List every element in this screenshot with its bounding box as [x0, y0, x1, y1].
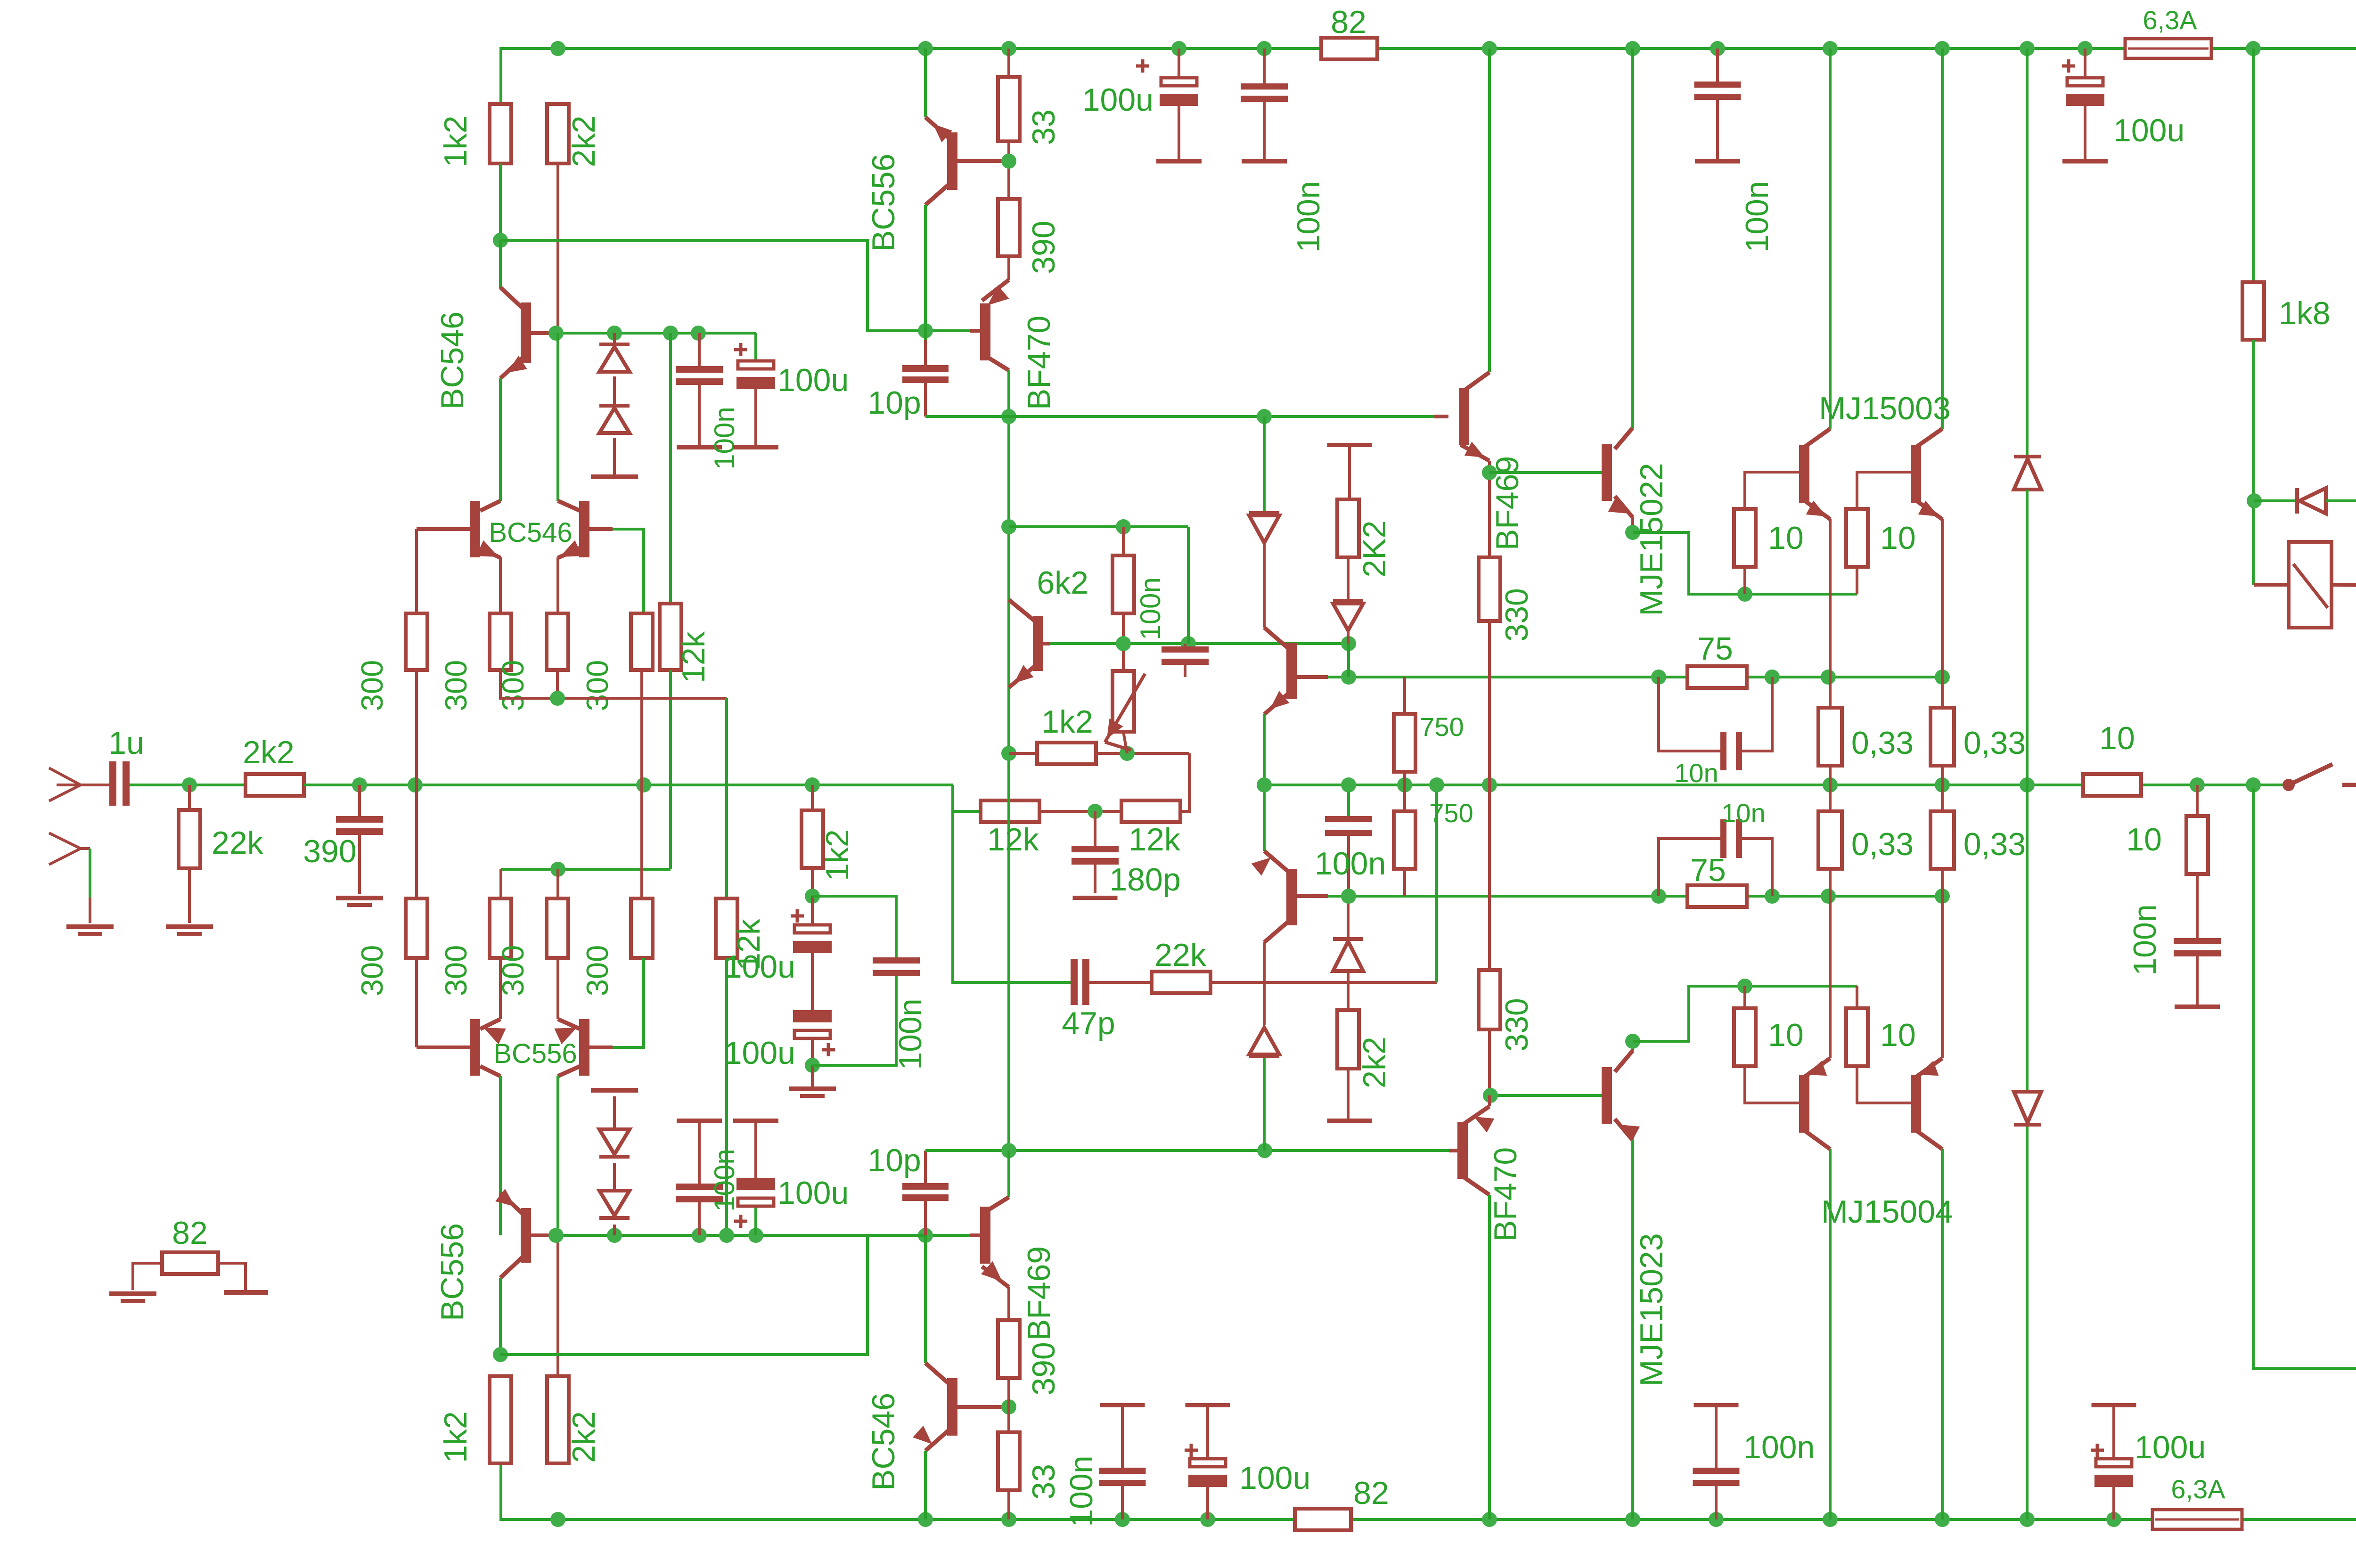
svg-text:100n: 100n [709, 407, 740, 469]
svg-text:10n: 10n [1674, 758, 1718, 788]
svg-text:6,3A: 6,3A [2143, 5, 2197, 35]
svg-text:75: 75 [1697, 631, 1733, 667]
svg-text:2k2: 2k2 [1357, 1037, 1392, 1088]
svg-text:BC546: BC546 [489, 517, 572, 548]
svg-text:22k: 22k [1154, 937, 1207, 973]
svg-text:47p: 47p [1062, 1005, 1115, 1041]
svg-text:100n: 100n [2127, 904, 2163, 975]
svg-text:MJE15023: MJE15023 [1634, 1233, 1669, 1386]
svg-text:2k2: 2k2 [243, 735, 294, 770]
svg-text:10p: 10p [867, 385, 921, 421]
svg-text:100n: 100n [709, 1149, 740, 1211]
svg-text:BF470: BF470 [1021, 316, 1057, 410]
svg-text:2k2: 2k2 [566, 1411, 602, 1463]
svg-text:100n: 100n [892, 998, 928, 1070]
svg-text:12k: 12k [987, 822, 1039, 857]
svg-text:12k: 12k [676, 631, 712, 683]
svg-text:10p: 10p [867, 1143, 921, 1178]
svg-text:10n: 10n [1721, 798, 1765, 828]
svg-text:100u: 100u [724, 949, 795, 985]
svg-text:10: 10 [1880, 1017, 1916, 1053]
svg-text:1k2: 1k2 [819, 829, 855, 881]
svg-text:300: 300 [355, 945, 389, 996]
svg-text:BC546: BC546 [434, 311, 470, 409]
svg-text:100u: 100u [2113, 113, 2184, 148]
svg-text:0,33: 0,33 [1851, 826, 1914, 862]
svg-text:10: 10 [1768, 1017, 1804, 1053]
svg-text:0,33: 0,33 [1963, 826, 2026, 862]
svg-text:10: 10 [1768, 520, 1804, 556]
svg-text:BC556: BC556 [493, 1038, 577, 1069]
svg-text:750: 750 [1420, 712, 1464, 742]
svg-text:1k2: 1k2 [438, 115, 474, 167]
svg-text:100u: 100u [724, 1035, 795, 1071]
svg-text:6,3A: 6,3A [2171, 1474, 2225, 1504]
svg-text:33: 33 [1026, 1464, 1062, 1500]
svg-text:300: 300 [439, 945, 473, 996]
svg-text:MJ15003: MJ15003 [1819, 391, 1951, 426]
svg-text:100n: 100n [1739, 181, 1775, 252]
svg-text:300: 300 [355, 660, 389, 711]
svg-text:1k8: 1k8 [2279, 295, 2331, 331]
svg-text:BC556: BC556 [866, 154, 901, 252]
svg-text:300: 300 [580, 660, 614, 711]
svg-text:330: 330 [1499, 588, 1535, 641]
svg-text:0,33: 0,33 [1851, 725, 1914, 761]
svg-text:390: 390 [303, 833, 356, 869]
svg-text:6k2: 6k2 [1037, 565, 1088, 601]
svg-text:BF469: BF469 [1021, 1246, 1057, 1340]
svg-text:MJE15022: MJE15022 [1634, 463, 1669, 616]
svg-text:BF469: BF469 [1489, 456, 1525, 550]
svg-text:1u: 1u [108, 725, 144, 761]
svg-text:330: 330 [1499, 998, 1535, 1051]
svg-text:2K2: 2K2 [1357, 521, 1392, 578]
svg-text:100n: 100n [1315, 846, 1386, 882]
svg-text:390: 390 [1026, 1342, 1062, 1395]
svg-text:MJ15004: MJ15004 [1821, 1194, 1953, 1230]
svg-text:1k2: 1k2 [438, 1411, 474, 1463]
svg-text:BC556: BC556 [434, 1223, 470, 1321]
svg-text:82: 82 [172, 1215, 208, 1251]
svg-text:22k: 22k [212, 825, 264, 861]
svg-text:BF470: BF470 [1488, 1147, 1523, 1241]
svg-text:1k2: 1k2 [1041, 704, 1093, 740]
svg-text:10: 10 [2099, 720, 2135, 756]
svg-text:100n: 100n [1291, 181, 1326, 252]
svg-text:10: 10 [1880, 520, 1916, 556]
svg-text:10: 10 [2126, 822, 2162, 857]
svg-text:100n: 100n [1135, 577, 1166, 640]
svg-text:300: 300 [439, 660, 473, 711]
svg-text:750: 750 [1429, 798, 1473, 828]
svg-text:2k2: 2k2 [566, 115, 602, 167]
svg-text:100n: 100n [1063, 1455, 1099, 1527]
svg-text:300: 300 [580, 945, 614, 996]
svg-text:100u: 100u [1082, 82, 1153, 118]
svg-text:33: 33 [1026, 109, 1062, 145]
svg-text:100n: 100n [1743, 1429, 1815, 1465]
svg-text:82: 82 [1353, 1475, 1389, 1511]
svg-text:BC546: BC546 [866, 1393, 901, 1491]
svg-text:0,33: 0,33 [1963, 725, 2026, 761]
svg-text:12k: 12k [1129, 822, 1181, 857]
svg-text:180p: 180p [1109, 862, 1180, 898]
svg-text:100u: 100u [2135, 1429, 2206, 1465]
svg-text:100u: 100u [777, 1175, 849, 1211]
svg-text:100u: 100u [1239, 1460, 1310, 1496]
svg-text:82: 82 [1331, 4, 1366, 40]
svg-text:100u: 100u [777, 362, 849, 398]
svg-text:390: 390 [1026, 220, 1062, 274]
